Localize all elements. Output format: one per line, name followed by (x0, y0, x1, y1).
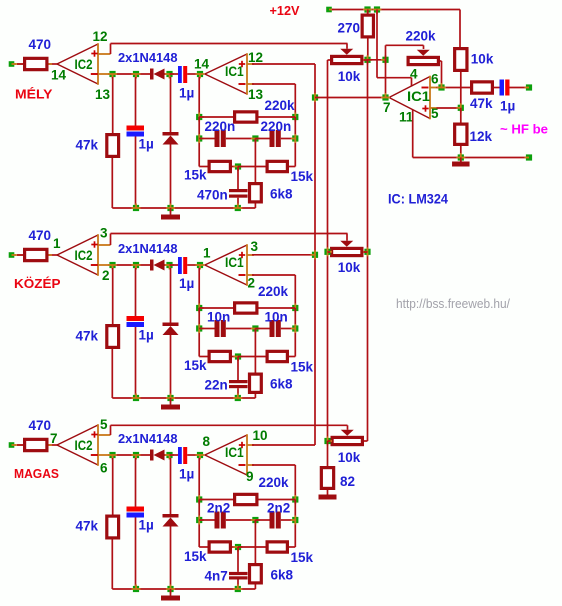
node input terminal IN1 (9, 61, 15, 67)
capacitor 1u electrolytic on bus band2 (170, 264, 179, 266)
capacitor 1u electrolytic on bus band3 (170, 454, 179, 456)
wire bus - line band2 (111, 264, 151, 266)
resistor 47k band3 (112, 458, 114, 515)
ground symbol 82 (319, 495, 337, 500)
svg-text:MÉLY: MÉLY (15, 87, 53, 102)
svg-text:47k: 47k (76, 138, 99, 153)
junction rail diode band2 (167, 395, 173, 401)
wire bus B pot left ends (328, 59, 331, 61)
svg-text:1µ: 1µ (139, 137, 154, 152)
junction pot bass left (324, 438, 330, 444)
junction cap row left band1 (196, 135, 202, 141)
wire bus C pot right ends (367, 60, 369, 441)
wire 220k right to - input (440, 60, 442, 62)
resistor 220k band1 (199, 116, 233, 118)
svg-text:6k8: 6k8 (270, 377, 293, 392)
junction rail R270 (364, 6, 370, 12)
svg-text:IC1: IC1 (225, 255, 244, 270)
svg-text:220n: 220n (261, 119, 292, 134)
capacitor 220n left band1 (199, 138, 214, 140)
wire pot bass left stub (328, 440, 331, 442)
svg-text:4n7: 4n7 (205, 569, 228, 584)
resistor 470 input band3 (25, 439, 47, 450)
junction network right 220k band1 (292, 114, 298, 120)
svg-text:10k: 10k (471, 52, 494, 67)
wire IC1 + input line band2 (252, 254, 315, 256)
junction rail 470n band1 (235, 205, 241, 211)
ground symbol band1 (170, 208, 172, 215)
ground symbol band2 (170, 398, 172, 405)
wire IC pin 11 to ground line (412, 110, 414, 158)
svg-text:220n: 220n (205, 119, 236, 134)
svg-text:10k: 10k (338, 450, 361, 465)
svg-text:5: 5 (100, 417, 108, 432)
diode 1N4148 vertical band1 (170, 77, 172, 132)
svg-text:47k: 47k (76, 329, 99, 344)
wire network left vertical band3 (198, 500, 200, 548)
svg-text:KÖZÉP: KÖZÉP (14, 276, 61, 291)
svg-text:15k: 15k (184, 549, 207, 564)
resistor 47k band1 (112, 77, 114, 133)
junction rail cap band2 (133, 395, 139, 401)
svg-text:1µ: 1µ (179, 86, 194, 101)
svg-text:470: 470 (29, 228, 52, 243)
wire network left vertical band1 (198, 117, 200, 167)
svg-text:22n: 22n (205, 378, 228, 393)
svg-text:IC2: IC2 (75, 438, 93, 453)
svg-text:220k: 220k (265, 98, 296, 113)
svg-text:7: 7 (50, 431, 58, 446)
resistor 15k right band1 (238, 166, 266, 168)
resistor 15k left band3 (199, 546, 207, 548)
capacitor 220n right band1 (255, 138, 269, 140)
diode 1N4148 vertical band3 (170, 458, 172, 514)
wire bus A output to + inputs (314, 64, 316, 445)
op-amp IC1 unit band3 (205, 435, 247, 455)
svg-text:470: 470 (29, 418, 52, 433)
svg-text:IC2: IC2 (75, 57, 93, 72)
wire IC1 + input line band1 (252, 63, 315, 65)
capacitor 1u electrolytic vertical band2 (133, 262, 139, 268)
potentiometer 220k (408, 57, 438, 64)
capacitor 4n7 band3 (237, 547, 239, 572)
svg-text:220k: 220k (259, 475, 290, 490)
wire IC1 - input line band1 (252, 83, 295, 85)
wire IC1 - input line band3 (252, 464, 295, 466)
svg-text:1µ: 1µ (500, 99, 515, 114)
resistor 82 (327, 441, 329, 466)
op-amp IC2 unit band2 (57, 235, 98, 255)
svg-text:9: 9 (246, 469, 254, 484)
junction network left 220k band3 (196, 496, 202, 502)
svg-text:2x1N4148: 2x1N4148 (118, 241, 178, 256)
svg-text:220k: 220k (258, 284, 289, 299)
svg-text:8: 8 (203, 434, 211, 449)
junction network left 220k band1 (196, 114, 202, 120)
junction pot top right R270 (364, 57, 370, 63)
svg-text:1µ: 1µ (179, 467, 194, 482)
wire IC1 output to network band1 (198, 77, 200, 117)
svg-text:10k: 10k (338, 69, 361, 84)
node IC1 output band2 (197, 262, 203, 268)
svg-text:14: 14 (51, 68, 67, 83)
wire output node down to IC1 output (385, 60, 387, 98)
potentiometer 10k treble (332, 56, 362, 63)
svg-text:3: 3 (251, 239, 259, 254)
capacitor 10n right band2 (255, 328, 269, 330)
junction rail 22n band2 (235, 395, 241, 401)
svg-text:10n: 10n (207, 310, 230, 325)
wire +12V to IC pin 4 (376, 10, 378, 78)
wire ground rail band1 (112, 207, 255, 209)
svg-text:10k: 10k (338, 260, 361, 275)
svg-text:1: 1 (203, 246, 211, 261)
wire ground rail band2 (112, 397, 255, 399)
junction network right 220k band2 (292, 305, 298, 311)
junction rail cap band1 (133, 205, 139, 211)
wire + input line common (437, 107, 461, 109)
wire 47k to cap (494, 87, 500, 89)
svg-text:82: 82 (340, 474, 355, 489)
junction band3 J1 (109, 452, 115, 458)
svg-text:15k: 15k (184, 358, 207, 373)
junction network right 220k band3 (292, 496, 298, 502)
wire +12V rail (332, 9, 460, 11)
junction band2 J2 diode vertical top (166, 262, 172, 268)
svg-text:470: 470 (29, 37, 52, 52)
wire R470 to IC2 output band1 (49, 63, 58, 65)
capacitor 1u electrolytic on bus band1 (170, 73, 179, 75)
junction 15k row band3 (235, 544, 241, 550)
svg-text:220k: 220k (406, 29, 437, 44)
svg-text:10n: 10n (265, 310, 288, 325)
wire IC2 + input to pot wiper band2 (110, 234, 112, 246)
resistor 6k8 band2 (254, 329, 256, 373)
junction band1 J2 diode vertical top (166, 71, 172, 77)
svg-text:IC: LM324: IC: LM324 (388, 192, 448, 207)
resistor 220k band2 (199, 307, 233, 309)
diode 1N4148 vertical band2 (170, 268, 172, 323)
ground symbol right (460, 158, 462, 162)
wire pot mid left stub (328, 251, 331, 253)
svg-text:7: 7 (383, 100, 391, 115)
wire output node to bus A (315, 97, 386, 99)
junction rail pin4 feed (374, 6, 380, 12)
node output terminal HF (526, 84, 532, 90)
capacitor 1u electrolytic vertical band3 (133, 452, 139, 458)
diode 1N4148 horizontal band2 (150, 260, 154, 271)
capacitor 2n2 right band3 (255, 519, 269, 521)
svg-text:15k: 15k (184, 168, 207, 183)
op-amp IC1 common (389, 77, 430, 98)
node IC1 common output pin 7 (382, 94, 388, 100)
junction cap row right band3 (292, 517, 298, 523)
resistor 470 input band1 (25, 58, 47, 69)
wire bus - line band3 (111, 454, 151, 456)
svg-text:15k: 15k (291, 360, 314, 375)
capacitor 2n2 left band3 (199, 519, 214, 521)
resistor 470 input band2 (25, 249, 47, 260)
resistor 15k left band1 (199, 166, 207, 168)
junction ground line 12k (458, 154, 464, 160)
svg-text:4: 4 (410, 67, 418, 82)
wire input to R resistor band3 (15, 444, 24, 446)
wire input to R resistor band1 (15, 63, 24, 65)
resistor 15k left band2 (199, 356, 207, 358)
resistor 270 (367, 10, 369, 14)
wire IC1 + input line band3 (252, 444, 315, 446)
junction - line 220k (438, 84, 444, 90)
junction output node top (382, 57, 388, 63)
svg-text:IC1: IC1 (225, 445, 244, 460)
svg-text:14: 14 (194, 57, 210, 72)
op-amp IC2 unit band3 (57, 425, 98, 445)
node input terminal IN2 (9, 252, 15, 258)
svg-text:15k: 15k (291, 169, 314, 184)
resistor 15k right band2 (238, 356, 266, 358)
resistor 6k8 band3 (254, 520, 256, 563)
node +12V terminal (326, 7, 332, 13)
wire IC1 output to network band2 (198, 268, 200, 308)
wire - input line common (437, 87, 471, 89)
svg-text:2x1N4148: 2x1N4148 (118, 50, 178, 65)
svg-text:6: 6 (431, 72, 439, 87)
junction cap row left band2 (196, 325, 202, 331)
svg-text:47k: 47k (470, 96, 493, 111)
resistor 220k band3 (199, 499, 233, 501)
junction pot mid right (364, 249, 370, 255)
svg-text:6k8: 6k8 (270, 187, 293, 202)
wire IC1 output to network band3 (198, 458, 200, 500)
wire network left vertical band2 (198, 308, 200, 357)
op-amp IC1 unit band1 (205, 54, 247, 74)
svg-text:IC2: IC2 (75, 248, 93, 263)
junction bus A mid + line (312, 252, 318, 258)
svg-text:47k: 47k (76, 519, 99, 534)
junction network left 220k band2 (196, 305, 202, 311)
wire bus - line band1 (111, 73, 151, 75)
svg-text:2n2: 2n2 (267, 501, 290, 516)
resistor 47k band2 (112, 268, 114, 324)
potentiometer 10k mid (332, 248, 362, 255)
svg-text:13: 13 (248, 87, 264, 102)
wire pot mid wiper stem (346, 234, 348, 241)
junction rail cap band3 (133, 586, 139, 592)
junction 15k row band2 (235, 353, 241, 359)
capacitor 470n band1 (237, 167, 239, 190)
wire IC1 - input line band2 (252, 274, 295, 276)
capacitor 10n left band2 (199, 328, 214, 330)
svg-text:IC1: IC1 (225, 64, 244, 79)
ground symbol band3 (170, 589, 172, 596)
op-amp IC1 unit band2 (205, 245, 247, 265)
junction rail diode band1 (167, 205, 173, 211)
wire IC2 + input to pot wiper band3 (110, 425, 112, 435)
potentiometer 10k bass (332, 437, 362, 444)
junction band2 J1 (109, 262, 115, 268)
resistor 15k right band3 (238, 546, 266, 548)
node output ground terminal (526, 154, 532, 160)
diode 1N4148 horizontal band1 (150, 69, 154, 80)
junction 15k row band1 (235, 163, 241, 169)
svg-text:2x1N4148: 2x1N4148 (118, 431, 178, 446)
svg-text:11: 11 (399, 110, 414, 125)
svg-text:12k: 12k (470, 129, 493, 144)
svg-text:2: 2 (248, 276, 256, 291)
svg-text:6: 6 (100, 461, 108, 476)
capacitor 1u electrolytic vertical band1 (133, 71, 139, 77)
wire pot mid right stub (364, 251, 368, 253)
junction band3 J2 diode vertical top (166, 452, 172, 458)
junction bus A to op-amp line (312, 94, 318, 100)
junction + line 12k (458, 105, 464, 111)
svg-text:6k8: 6k8 (271, 568, 294, 583)
svg-text:470n: 470n (197, 188, 228, 203)
node IC1 output band3 (197, 452, 203, 458)
svg-text:12: 12 (248, 50, 263, 65)
wire pot bass wiper stem (347, 425, 349, 430)
svg-text:270: 270 (338, 21, 361, 36)
junction cap row right band1 (292, 135, 298, 141)
junction pot mid left (324, 249, 330, 255)
svg-text:1µ: 1µ (179, 276, 194, 291)
junction cap row right band2 (292, 325, 298, 331)
wire pot top wiper stem (346, 44, 348, 49)
svg-text:MAGAS: MAGAS (14, 466, 59, 481)
resistor 6k8 band1 (254, 139, 256, 183)
wire input to R resistor band2 (15, 254, 24, 256)
svg-text:+12V: +12V (270, 3, 300, 18)
wire R470 to IC2 output band3 (49, 444, 58, 446)
node IC1 output band1 (197, 71, 203, 77)
resistor 10k vertical (455, 49, 467, 71)
capacitor 22n band2 (237, 357, 239, 381)
wire pot right to node (364, 59, 368, 61)
svg-text:1µ: 1µ (139, 518, 154, 533)
capacitor 1u output (500, 80, 505, 96)
svg-text:~ HF be: ~ HF be (500, 122, 548, 137)
svg-text:15k: 15k (291, 550, 314, 565)
svg-text:10: 10 (253, 428, 268, 443)
junction cap row left band3 (196, 517, 202, 523)
op-amp IC2 unit band1 (57, 44, 98, 64)
wire 220k wiper loop (423, 45, 425, 49)
junction rail diode band3 (167, 586, 173, 592)
svg-text:1: 1 (53, 236, 61, 251)
junction rail 4n7 band3 (235, 586, 241, 592)
resistor 47k output (472, 82, 493, 93)
wire R470 to IC2 output band2 (49, 254, 58, 256)
node input terminal IN3 (9, 442, 15, 448)
junction cap row centre band3 (252, 517, 258, 523)
wire IC2 + input to pot wiper band1 (110, 44, 112, 55)
svg-text:3: 3 (100, 226, 108, 241)
diode 1N4148 horizontal band3 (150, 450, 154, 461)
svg-text:2n2: 2n2 (207, 501, 230, 516)
svg-text:1µ: 1µ (139, 328, 154, 343)
svg-text:2: 2 (102, 268, 110, 283)
wire cap to output terminal (510, 87, 527, 89)
svg-text:12: 12 (93, 29, 108, 44)
junction cap row centre band2 (252, 325, 258, 331)
svg-text:http://bss.freeweb.hu/: http://bss.freeweb.hu/ (396, 296, 510, 311)
junction band1 J1 (109, 71, 115, 77)
svg-text:13: 13 (95, 87, 111, 102)
junction cap row centre band1 (252, 135, 258, 141)
svg-text:IC1: IC1 (407, 89, 431, 104)
resistor 12k (460, 108, 462, 123)
wire ground rail band3 (112, 588, 255, 590)
